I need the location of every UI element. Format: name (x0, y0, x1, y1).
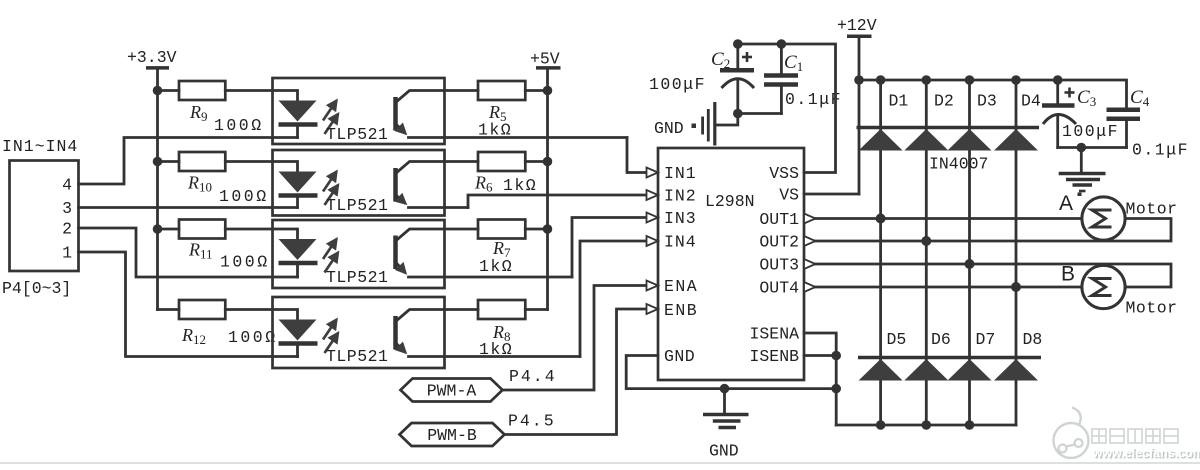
svg-text:100Ω: 100Ω (214, 116, 264, 135)
svg-text:IN1: IN1 (664, 164, 697, 183)
svg-text:L298N: L298N (705, 192, 755, 211)
svg-text:GND: GND (664, 347, 695, 366)
wire opto2 emitter to IN2 (468, 195, 647, 208)
svg-text:R10: R10 (187, 173, 212, 195)
svg-text:OUT4: OUT4 (759, 279, 799, 298)
U1 emitter (397, 125, 406, 134)
svg-text:D3: D3 (977, 92, 997, 111)
node C3 top (1053, 75, 1063, 85)
U1 emitter wire (409, 136, 628, 139)
svg-text:0.1μF: 0.1μF (785, 90, 842, 109)
U2 emitter wire (409, 206, 469, 209)
svg-text:A: A (1059, 192, 1073, 215)
U3 emitter (397, 263, 406, 273)
node D3 top (965, 75, 975, 85)
capacitor C3 (1042, 80, 1076, 148)
diode triangle D2 (904, 129, 948, 151)
svg-text:D6: D6 (931, 330, 951, 349)
diode triangle D7 (948, 359, 992, 381)
svg-text:+3.3V: +3.3V (127, 48, 177, 67)
svg-text:TLP521: TLP521 (326, 196, 388, 215)
resistor R11 (158, 228, 180, 231)
svg-text:TLP521: TLP521 (326, 268, 388, 287)
diode triangle D6 (904, 359, 948, 381)
wire OUT4 (816, 286, 1083, 289)
watermark CJK glyph blocks (1092, 429, 1178, 443)
node OUT2-D2 (921, 236, 931, 246)
optocoupler U2 TLP521 box (273, 150, 445, 216)
U2 LED diode (279, 172, 317, 193)
svg-text:P4.5: P4.5 (508, 412, 556, 431)
wire OUT1 (816, 217, 1083, 220)
capacitor C1 (738, 44, 798, 114)
optocoupler U4 TLP521 box (273, 297, 445, 368)
wire P4 pin3 to opto2 cathode (79, 206, 298, 209)
pin arrow IN4 (647, 236, 659, 246)
U3 LED diode (279, 239, 317, 260)
U3 light arrow 1 (323, 239, 337, 259)
svg-text:R9: R9 (189, 102, 208, 124)
U3 LED anode wire (225, 229, 297, 240)
U4 light arrow 2 (325, 333, 339, 353)
svg-text:OUT3: OUT3 (759, 256, 799, 275)
wire P4 pin1 to opto4 cathode (79, 252, 298, 357)
U2 emitter (397, 196, 406, 204)
wire D2 vertical (925, 80, 928, 425)
svg-text:IN3: IN3 (664, 209, 697, 228)
node ground wire junction (831, 384, 841, 394)
wire D4 vertical (1015, 80, 1018, 425)
U3 collector (396, 229, 479, 241)
svg-text:100Ω: 100Ω (220, 253, 270, 272)
node rail-R11 (153, 224, 163, 234)
svg-text:VSS: VSS (769, 164, 799, 183)
U4 LED anode wire (225, 310, 297, 321)
svg-text:+5V: +5V (530, 50, 560, 69)
node D6 bottom (922, 420, 932, 430)
resistor R9 (158, 89, 180, 92)
svg-text:IN4007: IN4007 (929, 155, 988, 174)
svg-text:4: 4 (62, 176, 72, 195)
svg-text:OUT1: OUT1 (759, 210, 799, 229)
U3 LED cathode lead (296, 265, 299, 277)
capacitor C2 (720, 44, 754, 114)
svg-text:OUT2: OUT2 (759, 233, 799, 252)
svg-text:+12V: +12V (837, 16, 877, 35)
wire ISENA (804, 333, 836, 425)
node C2 top (733, 39, 743, 49)
wire opto1 emitter to IN1 (627, 138, 647, 173)
wire PWM-A to ENA (503, 286, 647, 391)
diode triangle D5 (859, 359, 903, 381)
capacitor C4 (1107, 110, 1141, 148)
svg-text:1kΩ: 1kΩ (479, 340, 513, 359)
node OUT4-D4 (1011, 282, 1021, 292)
svg-text:3: 3 (62, 199, 72, 218)
wire OUT2 (816, 219, 1172, 242)
svg-text:www.elecfans.com: www.elecfans.com (1092, 446, 1200, 460)
svg-text:C1: C1 (784, 52, 803, 74)
node OUT1-D1 (876, 214, 886, 224)
wire C3-C4 bottom (1058, 146, 1127, 149)
U3 phototransistor base (393, 236, 398, 270)
svg-text:1: 1 (62, 244, 72, 263)
node rail-R9 (153, 86, 163, 96)
node OUT3-D3 (965, 259, 975, 269)
svg-text:ENB: ENB (664, 301, 698, 320)
pin arrow ENB (647, 304, 659, 314)
U1 light arrow 1 (323, 101, 337, 121)
diode triangle D4 (994, 129, 1038, 151)
svg-text:1kΩ: 1kΩ (503, 176, 537, 195)
pin arrow ENA (647, 281, 659, 291)
node D7 bottom (965, 420, 975, 430)
U3 light arrow 2 (325, 253, 339, 273)
wire D3 vertical (968, 80, 971, 425)
svg-text:100Ω: 100Ω (228, 328, 278, 347)
ground symbol caps (1059, 148, 1106, 192)
resistor R6 (478, 152, 525, 171)
svg-text:D7: D7 (976, 330, 996, 349)
wire ISENB (804, 354, 836, 357)
U2 phototransistor base (393, 168, 398, 202)
resistor R5 (478, 81, 525, 100)
wire VSS (738, 44, 836, 173)
node C1 top (777, 39, 787, 49)
wire P4 pin4 to opto1 cathode (79, 138, 298, 185)
node D1 top (876, 75, 886, 85)
svg-text:TLP521: TLP521 (326, 347, 388, 366)
svg-text:Motor: Motor (1126, 200, 1178, 219)
optocoupler U1 TLP521 box (273, 78, 445, 144)
wire opto4 emitter to IN4 (580, 241, 647, 357)
wire PWM-B to ENB (505, 309, 647, 435)
svg-text:R6: R6 (474, 173, 493, 195)
svg-text:D1: D1 (889, 92, 909, 111)
svg-text:0.1μF: 0.1μF (1132, 141, 1189, 160)
net port PWM-A (401, 379, 503, 402)
U2 collector (396, 162, 479, 174)
wire GND pin to ground (626, 356, 836, 389)
node ISEN junction (831, 351, 841, 361)
U2 LED cathode lead (296, 198, 299, 208)
svg-text:GND: GND (654, 119, 684, 138)
svg-text:100μF: 100μF (1062, 122, 1119, 141)
svg-text:PWM-B: PWM-B (427, 426, 477, 445)
U4 collector (396, 310, 479, 322)
svg-text:100μF: 100μF (649, 75, 706, 94)
svg-text:R11: R11 (188, 240, 213, 262)
U4 LED cathode lead (296, 346, 299, 357)
wire rail to R12 (158, 308, 180, 311)
svg-text:P4[0~3]: P4[0~3] (2, 279, 71, 298)
bottom faint border (0, 462, 1200, 464)
pin arrow IN3 (647, 213, 659, 223)
diode bar D5-D8 (858, 356, 1041, 360)
U2 light arrow 1 (323, 172, 337, 192)
svg-text:ISENB: ISENB (749, 347, 799, 366)
node ground stem (720, 384, 730, 394)
diode triangle D3 (948, 129, 992, 151)
resistor R12 (179, 300, 225, 319)
svg-text:D4: D4 (1021, 92, 1041, 111)
svg-text:100Ω: 100Ω (219, 187, 269, 206)
wire VS (804, 193, 859, 196)
U4 LED diode (279, 320, 317, 341)
svg-text:IN2: IN2 (664, 187, 697, 206)
watermark logo (1054, 408, 1200, 462)
svg-text:GND: GND (709, 442, 739, 461)
svg-text:D8: D8 (1023, 330, 1043, 349)
node rail-R10 (153, 157, 163, 167)
svg-text:C2: C2 (711, 49, 730, 71)
motor B (1082, 265, 1125, 308)
svg-text:C4: C4 (1130, 87, 1150, 109)
pin arrow IN2 (647, 190, 659, 200)
svg-text:C3: C3 (1077, 87, 1096, 109)
node +12V bus (854, 75, 864, 85)
wire D1 vertical (879, 80, 882, 425)
svg-text:D5: D5 (887, 330, 907, 349)
U2 LED anode wire (225, 162, 297, 173)
wire OUT3 (816, 264, 1172, 287)
U3 emitter wire (409, 276, 573, 279)
resistor R10 (158, 160, 180, 163)
wire P4 pin2 to opto3 cathode (79, 228, 298, 277)
U4 emitter (397, 344, 406, 353)
svg-text:PWM-A: PWM-A (427, 382, 477, 401)
power +5V (530, 50, 561, 310)
U1 LED diode (279, 101, 317, 122)
svg-text:D2: D2 (934, 92, 954, 111)
svg-text:1kΩ: 1kΩ (478, 121, 512, 140)
U4 phototransistor base (393, 316, 398, 350)
svg-text:Motor: Motor (1126, 299, 1178, 318)
diode triangle D1 (859, 129, 903, 151)
ground symbol left GND (703, 102, 738, 146)
resistor R7 (478, 220, 525, 239)
U1 LED anode wire (225, 91, 297, 102)
power +12V (837, 16, 877, 194)
U1 LED cathode lead (296, 127, 299, 138)
svg-text:IN1~IN4: IN1~IN4 (2, 137, 78, 156)
wire opto3 emitter to IN3 (572, 218, 647, 278)
node cap ground (1077, 143, 1087, 153)
node C2 bottom (733, 109, 743, 119)
U1 light arrow 2 (325, 114, 339, 134)
net port PWM-B (400, 423, 505, 446)
svg-text:ENA: ENA (664, 277, 698, 296)
svg-text:IN4: IN4 (664, 233, 697, 252)
node D5 bottom (876, 420, 886, 430)
svg-text:R12: R12 (181, 325, 206, 347)
node rail-R6 (543, 157, 553, 167)
power +3.3V (127, 48, 177, 310)
svg-text:P4.4: P4.4 (509, 367, 557, 386)
node rail-R5 (543, 86, 553, 96)
wire top bus (859, 80, 1127, 110)
node rail-R7 (543, 224, 553, 234)
U1 collector (396, 91, 479, 103)
node D2 top (922, 75, 932, 85)
IC U5 L298N (658, 148, 804, 380)
ground symbol under chip (703, 389, 749, 428)
svg-text:B: B (1061, 263, 1075, 286)
svg-text:1kΩ: 1kΩ (479, 257, 513, 276)
U4 emitter wire (409, 355, 581, 358)
node D4 top (1011, 75, 1021, 85)
pin arrow IN1 (647, 168, 659, 178)
connector P4 (10, 161, 79, 272)
diode bar D1-D4 (857, 126, 1040, 130)
svg-text:VS: VS (779, 186, 799, 205)
svg-text:ISENA: ISENA (749, 325, 799, 344)
U4 light arrow 1 (323, 320, 337, 340)
motor A (1082, 197, 1125, 240)
U2 light arrow 2 (325, 185, 339, 205)
diode triangle D8 (994, 359, 1038, 381)
svg-text:TLP521: TLP521 (326, 125, 388, 144)
resistor R8 (478, 300, 525, 319)
svg-text:2: 2 (62, 220, 72, 239)
U1 phototransistor base (393, 97, 398, 131)
wire bottom diode bus (836, 424, 1016, 427)
optocoupler U3 TLP521 box (273, 220, 445, 288)
